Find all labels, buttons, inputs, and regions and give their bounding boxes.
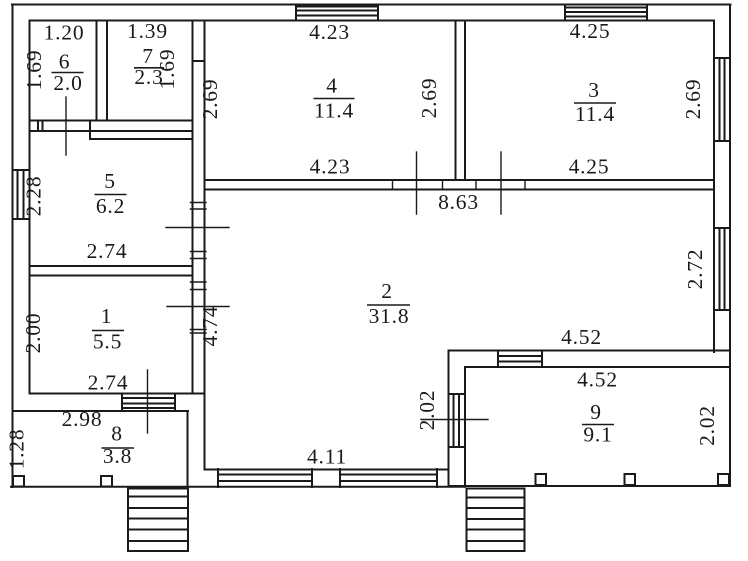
svg-text:9: 9	[590, 400, 602, 424]
porch column D	[625, 474, 636, 485]
window W7 bottom wall right	[340, 469, 437, 487]
porch column E	[718, 474, 729, 485]
wall: right inner line	[713, 21, 715, 353]
svg-text:4.52: 4.52	[577, 368, 618, 392]
room 9 left wall	[449, 351, 466, 486]
svg-text:1.20: 1.20	[44, 21, 85, 45]
door tick room 4	[416, 152, 418, 214]
svg-text:4.74: 4.74	[198, 306, 222, 347]
wall between rooms 4,3 and room 2	[205, 180, 715, 190]
porch column C	[536, 474, 547, 485]
svg-text:2: 2	[381, 279, 393, 303]
wall between room 2 and room 9	[449, 351, 731, 368]
window W1 top wall above room 4	[296, 5, 378, 21]
svg-text:3: 3	[588, 78, 600, 102]
bottom wall of room 2	[11, 470, 465, 487]
svg-text:11.4: 11.4	[575, 102, 615, 126]
svg-text:2.74: 2.74	[88, 371, 129, 395]
room 4 underline	[314, 98, 355, 100]
svg-text:2.02: 2.02	[695, 405, 719, 446]
room 8 underline	[102, 447, 135, 449]
door jambs on room2 left wall	[191, 203, 207, 334]
room 6 underline	[52, 72, 84, 74]
window W4 right wall of room 3	[714, 58, 730, 141]
room 7 underline	[134, 67, 164, 69]
window W2 top wall above room 3	[565, 5, 647, 21]
stairs right	[467, 489, 525, 552]
door tick room 8	[147, 370, 149, 433]
room 1 underline	[92, 330, 124, 332]
svg-text:5.5: 5.5	[93, 330, 122, 354]
svg-text:8.63: 8.63	[438, 190, 479, 214]
svg-text:4.23: 4.23	[309, 20, 350, 44]
wall: right outer line	[729, 5, 731, 486]
door tick room 5	[166, 227, 229, 229]
door tick room 3	[500, 152, 502, 214]
wall room 7 / room 4 and rooms 5,1 / room 2	[193, 21, 205, 470]
svg-text:2.69: 2.69	[681, 79, 705, 120]
svg-text:2.00: 2.00	[21, 313, 45, 354]
svg-text:1: 1	[101, 304, 113, 328]
window W9 room 9 left wall	[449, 394, 466, 447]
svg-text:2.02: 2.02	[415, 390, 439, 431]
svg-text:31.8: 31.8	[369, 304, 410, 328]
porch column A	[13, 476, 24, 487]
room 2 underline	[367, 304, 410, 306]
svg-text:3.8: 3.8	[103, 444, 132, 468]
svg-text:2.72: 2.72	[683, 249, 707, 290]
svg-text:4.11: 4.11	[307, 445, 347, 469]
svg-text:2.0: 2.0	[53, 71, 82, 95]
door leaf room 6	[65, 97, 67, 155]
svg-text:2.28: 2.28	[22, 176, 46, 217]
svg-text:2.74: 2.74	[87, 239, 128, 263]
wall between rooms 6,7 and room 5	[30, 121, 193, 140]
wall: left outer line	[12, 5, 14, 488]
door jambs in wall 4,3 / 2	[393, 180, 526, 190]
wall room 8 right	[187, 411, 189, 487]
svg-text:2.69: 2.69	[198, 79, 222, 120]
wall between room 1 and room 8	[13, 394, 205, 412]
wall between rooms 4 and 3	[456, 21, 466, 181]
svg-text:9.1: 9.1	[583, 423, 612, 447]
wall: top inner line	[30, 20, 714, 22]
window W6 bottom wall left	[218, 469, 312, 487]
svg-text:1.69: 1.69	[22, 50, 46, 91]
svg-text:4.52: 4.52	[561, 325, 602, 349]
svg-text:4.23: 4.23	[310, 155, 351, 179]
room 9 underline	[582, 424, 614, 426]
svg-text:5: 5	[104, 169, 116, 193]
svg-text:6.2: 6.2	[96, 194, 125, 218]
wall between rooms 5 and 1	[30, 266, 193, 276]
svg-text:2.69: 2.69	[417, 78, 441, 119]
window W3 left wall of room 5	[13, 170, 30, 219]
room 5 underline	[95, 194, 127, 196]
door hatch room 1 / room 8	[122, 394, 175, 412]
room 9 bottom line	[449, 485, 731, 487]
window W8 room 9 top wall	[498, 351, 542, 368]
wall between rooms 6 and 7	[97, 21, 108, 121]
room 3 underline	[574, 102, 616, 104]
wall: top outer line	[12, 4, 731, 6]
window tick room 9	[421, 419, 488, 421]
svg-text:1.39: 1.39	[127, 19, 168, 43]
svg-text:2.98: 2.98	[62, 407, 103, 431]
svg-text:4: 4	[326, 74, 338, 98]
window W5 right wall of room 2	[714, 228, 730, 310]
svg-text:6: 6	[59, 50, 71, 74]
wall: left inner line	[29, 21, 31, 394]
porch column B	[101, 476, 112, 487]
svg-text:8: 8	[111, 422, 123, 446]
svg-text:1.69: 1.69	[155, 49, 179, 90]
svg-text:1.28: 1.28	[5, 429, 29, 470]
svg-text:4.25: 4.25	[570, 19, 611, 43]
door tick room 1	[167, 306, 229, 308]
stairs left	[128, 489, 188, 552]
svg-text:4.25: 4.25	[569, 155, 610, 179]
svg-text:11.4: 11.4	[314, 99, 354, 123]
